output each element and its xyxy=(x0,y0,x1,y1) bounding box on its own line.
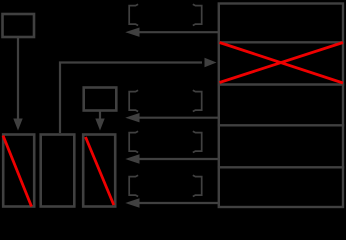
bracket pair P3 right xyxy=(193,131,202,152)
red X cross line 1 xyxy=(220,43,344,84)
memory divider 2 xyxy=(218,83,344,85)
box B2 (small box above R3) xyxy=(84,88,117,111)
arrow A3 wire xyxy=(139,158,218,160)
bracket pair P1 right xyxy=(193,4,202,25)
arrowhead into rect R1 xyxy=(13,119,22,131)
wire L-connector from R2 top to memory xyxy=(60,63,202,134)
rect R1 (bottom-left tall rect) xyxy=(3,135,34,207)
bracket pair P4 left xyxy=(129,175,138,196)
memory column outline xyxy=(219,4,343,208)
arrow A1 head xyxy=(125,28,139,37)
rect R3 (bottom-right tall rect) xyxy=(83,135,115,207)
red slash in R1 xyxy=(3,136,32,207)
arrowhead right into memory xyxy=(205,58,217,67)
arrow A4 head xyxy=(125,198,139,207)
arrow A2 head xyxy=(125,113,139,122)
wire from box B2 down xyxy=(99,111,101,120)
memory divider 4 xyxy=(218,166,344,168)
rect R2 (bottom-middle tall rect) xyxy=(41,135,75,207)
arrow A3 head xyxy=(125,154,139,163)
red X cross line 2 xyxy=(220,43,344,83)
arrow A2 wire xyxy=(139,117,218,119)
red slash in R3 xyxy=(86,137,114,205)
bracket pair P2 left xyxy=(129,90,138,111)
bracket pair P3 left xyxy=(129,131,138,152)
memory divider 3 xyxy=(218,124,344,126)
wire from box B1 down xyxy=(17,38,19,120)
arrow A4 wire xyxy=(139,202,218,204)
arrowhead into rect R3 xyxy=(95,119,104,131)
memory divider 1 xyxy=(218,41,344,43)
bracket pair P2 right xyxy=(193,90,202,111)
bracket pair P4 right xyxy=(193,175,202,196)
box B1 (top-left small box) xyxy=(3,14,35,37)
arrow A1 wire xyxy=(139,31,218,33)
bracket pair P1 left xyxy=(129,4,138,25)
